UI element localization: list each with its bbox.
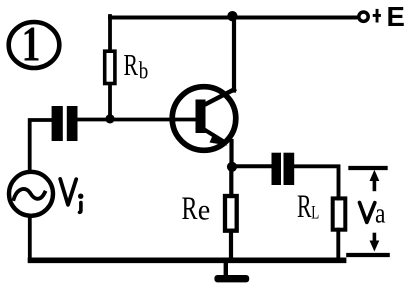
svg-text:b: b xyxy=(139,59,149,85)
wire Rb top xyxy=(108,16,112,51)
node emitter junction xyxy=(227,162,237,172)
svg-text:R: R xyxy=(297,189,312,225)
capacitor C1 xyxy=(52,106,78,141)
wire collector xyxy=(232,18,236,91)
resistor Re xyxy=(225,196,237,231)
capacitor C2 xyxy=(272,153,295,185)
wire Re top xyxy=(229,167,233,197)
Vo up arrow xyxy=(370,170,380,190)
label Vo xyxy=(360,199,386,230)
svg-text:1: 1 xyxy=(22,16,41,72)
label Vi xyxy=(60,179,83,212)
svg-text:R: R xyxy=(124,47,139,82)
ground xyxy=(214,262,249,282)
wire emitter xyxy=(229,141,233,167)
wire Re bottom xyxy=(229,231,233,258)
svg-text:e: e xyxy=(198,193,211,226)
label RL xyxy=(297,189,319,225)
node collector-rail junction xyxy=(227,11,237,21)
transistor Q1 xyxy=(172,87,236,151)
wire bottom rail xyxy=(31,257,344,263)
resistor RL xyxy=(333,198,346,229)
wire emitter to C2 xyxy=(232,164,272,168)
label Rb xyxy=(124,47,149,85)
source Vi xyxy=(9,172,53,216)
wire top rail xyxy=(110,16,356,20)
wire Vi bottom xyxy=(28,216,32,260)
label Re xyxy=(182,191,211,227)
circled figure number 1 xyxy=(9,16,60,72)
Vo down arrow xyxy=(370,235,380,252)
svg-text:E: E xyxy=(387,1,405,32)
wire Rb bottom xyxy=(108,85,112,120)
Vo top bar xyxy=(350,166,385,170)
label +E xyxy=(373,1,405,32)
svg-text:R: R xyxy=(182,191,198,227)
wire RL bottom xyxy=(336,230,340,259)
svg-text:L: L xyxy=(311,202,319,223)
Vo bottom bar xyxy=(348,253,387,257)
wire C1 left xyxy=(30,120,52,170)
terminal +E xyxy=(359,12,368,21)
wire C2 to RL xyxy=(294,166,338,198)
wire base xyxy=(77,118,197,122)
resistor Rb xyxy=(105,51,115,83)
svg-text:a: a xyxy=(375,199,386,230)
node base junction xyxy=(105,114,114,123)
